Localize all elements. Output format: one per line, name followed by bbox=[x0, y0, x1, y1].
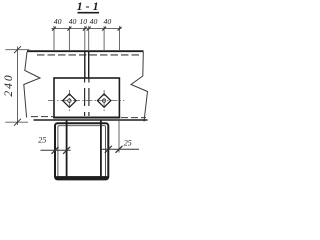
extension line x=54 bbox=[53, 26, 55, 50]
right 25 ticks bbox=[105, 146, 112, 153]
beam bottom edge bbox=[34, 119, 148, 121]
hidden flange line left of plate bbox=[31, 116, 53, 118]
svg-text:40: 40 bbox=[90, 17, 98, 26]
svg-text:25: 25 bbox=[38, 136, 46, 145]
web plate left line bbox=[84, 51, 86, 78]
beam hidden line (dashed) bbox=[37, 54, 140, 56]
extension line x=104.1 bbox=[103, 26, 105, 50]
left break line bbox=[24, 52, 40, 118]
tick marks on top dimension bbox=[52, 27, 122, 31]
bolt B1 hole circle bbox=[68, 99, 71, 102]
svg-text:40: 40 bbox=[69, 17, 77, 26]
extension line x=119.5 bbox=[119, 26, 121, 50]
right 25 extension line bbox=[118, 121, 120, 153]
bolt B1 diamond bbox=[63, 94, 76, 107]
svg-text:40: 40 bbox=[54, 17, 62, 26]
right break line bbox=[131, 52, 148, 122]
ticks bbox=[14, 46, 21, 53]
bolt B1 vertical centerline bbox=[68, 90, 70, 112]
svg-text:40: 40 bbox=[104, 17, 112, 26]
web hidden continuation through plate bbox=[84, 79, 86, 118]
column RHS outer bbox=[55, 123, 108, 179]
svg-text:1 - 1: 1 - 1 bbox=[77, 0, 99, 13]
beam top edge bbox=[27, 50, 144, 52]
top extension bbox=[5, 49, 29, 51]
hidden flange line right of plate bbox=[121, 117, 146, 119]
section title 1-1 bbox=[77, 0, 99, 13]
left dimension 240 bbox=[3, 46, 30, 126]
web plate right line bbox=[88, 51, 90, 78]
extension line x=84.8 bbox=[84, 26, 86, 50]
anchor rod left bbox=[66, 121, 68, 177]
bolt B2 diamond bbox=[97, 94, 110, 107]
extension line x=88.7 bbox=[88, 26, 90, 50]
end plate bbox=[54, 78, 119, 117]
bolt B2 vertical centerline bbox=[103, 90, 105, 112]
column RHS inner wall bbox=[58, 126, 106, 177]
extension line x=69.4 bbox=[68, 26, 70, 50]
bottom extension bbox=[5, 121, 28, 123]
svg-text:10: 10 bbox=[79, 17, 87, 26]
plate bottom thick edge bbox=[53, 116, 120, 118]
left 25 dimension line bbox=[41, 149, 71, 151]
vertical dimension line bbox=[17, 47, 19, 126]
bolt B2 hole circle bbox=[102, 99, 105, 102]
column bottom wall solid band bbox=[56, 176, 108, 180]
top dimension line bbox=[52, 28, 122, 30]
anchor rod right bbox=[100, 121, 102, 177]
bolt horizontal centerline bbox=[48, 100, 124, 102]
dimension labels 40 40 10 40 40 bbox=[54, 17, 112, 26]
svg-text:240: 240 bbox=[3, 73, 15, 96]
svg-text:25: 25 bbox=[124, 139, 132, 148]
left 25 ticks bbox=[52, 147, 59, 154]
right 25 dimension line bbox=[101, 148, 140, 150]
